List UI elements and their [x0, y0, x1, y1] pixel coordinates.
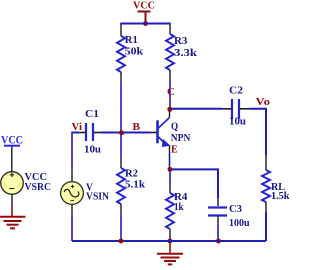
svg-text:Vo: Vo: [256, 96, 271, 108]
resistor RL: [262, 170, 290, 202]
junction dot (collector node): [167, 107, 172, 112]
svg-text:50k: 50k: [125, 45, 144, 57]
capacitor C2: [229, 85, 246, 128]
wire C1 to node B: [94, 132, 101, 134]
svg-text:VCC: VCC: [133, 0, 155, 12]
wire VCC bar to VSRC: [11, 147, 13, 173]
wire base node to transistor: [123, 132, 150, 134]
wire C2 to RL corner: [240, 108, 249, 110]
svg-text:R3: R3: [174, 35, 188, 47]
wire emitter to junction: [169, 146, 171, 153]
svg-text:5.1k: 5.1k: [125, 179, 146, 191]
svg-text:C2: C2: [229, 85, 244, 97]
power port VCC (left, net label): [1, 132, 23, 146]
svg-text:3.3k: 3.3k: [174, 47, 198, 59]
junction dot (R2 bottom): [119, 239, 124, 244]
transistor Q1 NPN: [158, 118, 191, 147]
capacitor C1: [84, 108, 101, 155]
svg-text:C1: C1: [85, 108, 99, 120]
junction dot (C3 bottom): [216, 239, 221, 244]
svg-text:10u: 10u: [229, 116, 246, 128]
wire R1 top lead: [120, 23, 122, 27]
svg-text:B: B: [133, 121, 141, 133]
svg-text:R1: R1: [125, 34, 138, 46]
svg-text:1.5k: 1.5k: [271, 190, 290, 202]
svg-text:Vi: Vi: [72, 121, 83, 133]
resistor R3: [166, 34, 198, 70]
svg-text:1k: 1k: [174, 201, 184, 213]
wire Vi corner down to VSIN: [71, 132, 73, 168]
svg-text:VSIN: VSIN: [86, 191, 109, 203]
wire R4 bottom lead: [169, 229, 171, 238]
wire VSRC bottom to ground: [11, 194, 13, 206]
source V VSIN: [61, 181, 109, 204]
resistor R4: [166, 191, 188, 229]
svg-text:C3: C3: [229, 203, 242, 215]
wire bottom rail: [72, 240, 219, 242]
wire R3 top lead: [169, 23, 171, 26]
wire VSIN bottom to rail: [71, 205, 73, 217]
svg-text:Q: Q: [171, 120, 179, 132]
junction dot (R4 bottom / ground node): [168, 239, 173, 244]
svg-text:NPN: NPN: [171, 132, 191, 144]
wire top rail: [121, 23, 170, 25]
junction dot (emitter node): [168, 167, 173, 172]
svg-text:E: E: [171, 143, 178, 155]
wire collector node to C2: [171, 108, 222, 110]
svg-text:VCC: VCC: [1, 132, 23, 146]
wire R2 bottom lead: [120, 204, 122, 214]
resistor R2: [117, 168, 146, 204]
svg-text:100u: 100u: [229, 217, 250, 229]
svg-text:10u: 10u: [84, 143, 101, 155]
ground (center bottom): [157, 243, 183, 264]
wire R1 bottom lead: [120, 72, 122, 82]
resistor R1: [117, 34, 144, 72]
wire R3 bottom lead to collector: [169, 70, 171, 80]
wire emitter node to C3: [171, 168, 218, 198]
wire R2 top lead: [120, 134, 122, 158]
svg-text:C: C: [167, 86, 175, 98]
junction dot (VCC rail): [143, 21, 148, 26]
wire C3 bottom lead: [217, 217, 219, 226]
wire R4 top lead: [169, 171, 171, 183]
junction dot (base node): [119, 130, 124, 135]
wire Vi to C1: [72, 132, 79, 134]
capacitor C3: [208, 203, 250, 229]
ground (left, under VSRC): [0, 217, 26, 229]
source VCC VSRC: [1, 171, 51, 195]
power port VCC (top): [133, 0, 155, 22]
svg-text:VSRC: VSRC: [25, 181, 52, 193]
wire collector pin: [169, 111, 171, 118]
wire RL bottom lead: [265, 202, 267, 212]
